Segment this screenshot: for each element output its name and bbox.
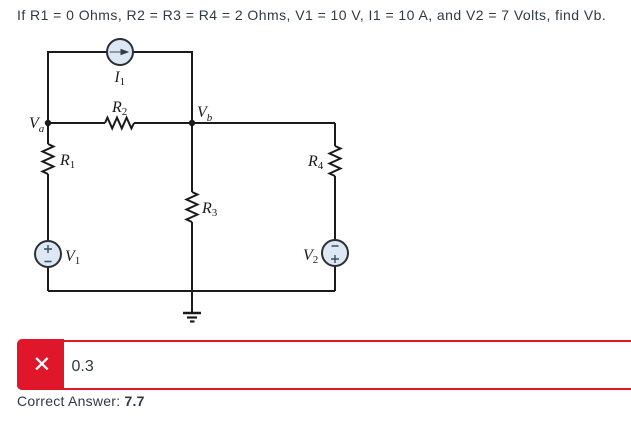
correct answer line xyxy=(17,393,145,409)
wire middle branch: R3 to bottom xyxy=(191,222,193,291)
wire top loop: left vertical + top horizontal to current source xyxy=(48,52,107,123)
wire middle right: R2 to Vb to right corner xyxy=(134,122,335,124)
svg-text:Va: Va xyxy=(29,115,45,135)
wire right branch: R4 to V2 xyxy=(334,176,336,240)
wire left branch: R1 to V1 xyxy=(47,174,49,241)
wire left branch: Va to R1 xyxy=(47,123,49,144)
incorrect answer box xyxy=(17,340,631,390)
resistor R4 xyxy=(330,146,341,176)
resistor R2 xyxy=(105,118,134,129)
svg-text:R2: R2 xyxy=(111,99,127,118)
svg-text:R1: R1 xyxy=(59,152,75,171)
incorrect x icon cell xyxy=(17,339,64,389)
resistor R1 xyxy=(43,144,54,174)
svg-text:R3: R3 xyxy=(201,200,218,219)
wire right branch: corner to R4 xyxy=(334,123,336,146)
voltage source V2 xyxy=(322,240,348,266)
ground xyxy=(183,291,201,322)
question text xyxy=(17,7,606,23)
node Va xyxy=(45,120,51,126)
wire middle branch: Vb to R3 xyxy=(191,123,193,192)
svg-text:V1: V1 xyxy=(65,248,80,267)
node Vb xyxy=(189,120,195,126)
svg-text:V2: V2 xyxy=(303,247,318,266)
submitted answer value 0.3 xyxy=(72,359,94,375)
svg-text:I1: I1 xyxy=(114,69,126,88)
svg-text:R4: R4 xyxy=(307,153,324,172)
svg-text:Vb: Vb xyxy=(197,104,213,124)
current source I1 xyxy=(107,39,133,65)
wire right bottom: V2 to bottom-right corner xyxy=(334,266,336,291)
wire top right: current source to top-right corner down to Vb xyxy=(133,52,192,123)
resistor R3 xyxy=(187,192,198,222)
wire left bottom: V1 to bottom-left corner xyxy=(47,267,49,291)
wire middle left: Va to R2 xyxy=(48,122,105,124)
wire bottom: bottom rail xyxy=(48,290,335,292)
voltage source V1 xyxy=(35,241,61,267)
